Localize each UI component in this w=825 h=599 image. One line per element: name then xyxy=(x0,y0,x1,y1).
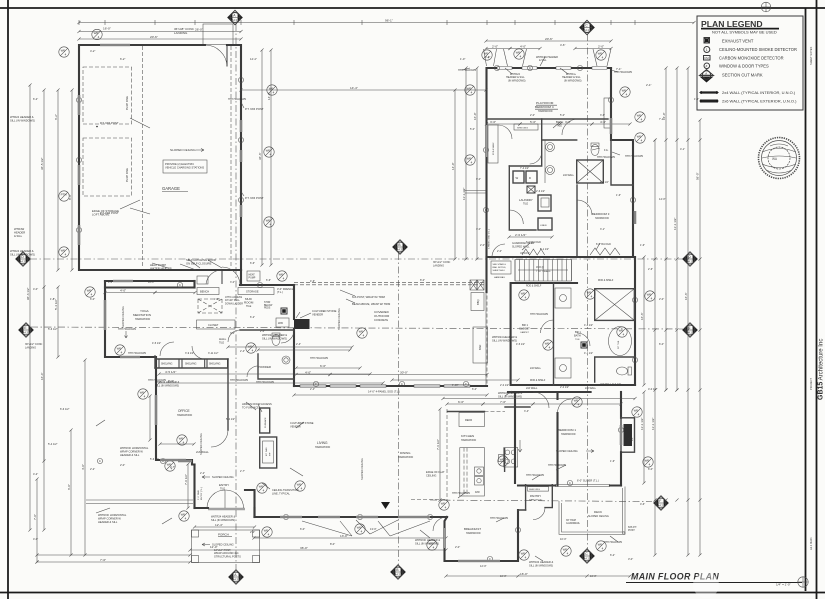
svg-text:20'-6": 20'-6" xyxy=(545,37,553,41)
legend section cut mark symbol xyxy=(700,70,714,76)
svg-text:3'-0": 3'-0" xyxy=(230,332,235,335)
svg-text:2'-0": 2'-0" xyxy=(260,330,265,333)
svg-text:SHEET A4.0: SHEET A4.0 xyxy=(493,269,506,272)
svg-text:C: C xyxy=(78,158,80,162)
svg-text:A4.2: A4.2 xyxy=(658,504,664,508)
svg-text:16'-0": 16'-0" xyxy=(520,572,528,576)
plan legend box xyxy=(697,16,803,110)
svg-text:1'-0": 1'-0" xyxy=(694,97,699,101)
porch posts xyxy=(192,556,199,563)
svg-text:6'-2": 6'-2" xyxy=(610,553,615,557)
dim line kitchen bedroom band xyxy=(443,398,635,400)
svg-text:2'-0": 2'-0" xyxy=(530,114,535,117)
svg-text:ROD & SHELF: ROD & SHELF xyxy=(526,286,542,288)
svg-text:14'-0": 14'-0" xyxy=(451,162,455,170)
svg-text:CEILING-MOUNTED SMOKE DETECTOR: CEILING-MOUNTED SMOKE DETECTOR xyxy=(719,47,797,52)
svg-text:HEADER: HEADER xyxy=(14,231,25,235)
svg-text:A4.1: A4.1 xyxy=(687,260,693,264)
svg-text:12'-4": 12'-4" xyxy=(215,523,223,527)
border frame right inner title strip xyxy=(805,8,807,591)
svg-text:BEDROOM 4: BEDROOM 4 xyxy=(535,105,554,109)
section line B vertical xyxy=(398,253,400,565)
bench box xyxy=(197,288,219,295)
svg-text:4'-0": 4'-0" xyxy=(33,537,38,541)
svg-text:ROD & SHELF: ROD & SHELF xyxy=(493,142,495,155)
svg-text:ENTRY (T.L.): ENTRY (T.L.) xyxy=(201,487,203,500)
bifold closet near stairs xyxy=(522,249,545,255)
svg-text:58'-0": 58'-0" xyxy=(696,172,700,180)
leader lines texture xyxy=(96,57,620,561)
svg-text:SELF-LATCHING DOOR: SELF-LATCHING DOOR xyxy=(186,258,216,262)
attic access hatch dashed box xyxy=(198,299,222,313)
svg-text:PROJECT: PROJECT xyxy=(809,377,813,390)
svg-text:16'-0": 16'-0" xyxy=(590,574,597,578)
watermark translucent blob xyxy=(693,572,719,598)
section marker C top xyxy=(580,20,594,34)
entry south wall xyxy=(195,507,209,509)
garage right wall windows xyxy=(240,120,242,132)
office walls xyxy=(155,359,228,430)
svg-text:PORCH: PORCH xyxy=(218,533,229,537)
svg-text:4'-5 1/2": 4'-5 1/2" xyxy=(516,343,525,346)
svg-text:UP 16 R: UP 16 R xyxy=(520,252,530,255)
svg-text:LANDING: LANDING xyxy=(25,346,36,349)
svg-text:STOR: STOR xyxy=(264,302,271,304)
svg-text:F/P: F/P xyxy=(269,452,271,456)
bedroom1 deck windows xyxy=(620,425,622,445)
door arc mud to hall xyxy=(281,330,294,343)
svg-text:HTH HOLDOWN: HTH HOLDOWN xyxy=(526,474,544,477)
svg-text:A: A xyxy=(705,71,707,75)
left dimension chain 2 xyxy=(43,90,45,530)
svg-text:LIVING: LIVING xyxy=(317,441,328,445)
svg-text:2'-0": 2'-0" xyxy=(455,545,460,549)
svg-text:6'-0": 6'-0" xyxy=(648,467,653,471)
section marker D left xyxy=(16,252,30,266)
svg-text:BR 1: BR 1 xyxy=(522,323,528,327)
door arc hall closet xyxy=(228,330,240,342)
svg-text:WRAP CORNER W: WRAP CORNER W xyxy=(120,449,143,453)
interior dim cluster2 xyxy=(296,374,330,376)
dashed line kitchen flat ceiling horizontal xyxy=(411,499,447,501)
kitchen cooktop xyxy=(504,448,518,467)
svg-text:CARBON MONOXIDE DETECTOR: CARBON MONOXIDE DETECTOR xyxy=(719,56,784,61)
section marker E right xyxy=(683,323,697,337)
bedroom3 west wall xyxy=(576,185,578,257)
svg-text:HTH HOLDOWN: HTH HOLDOWN xyxy=(530,313,548,316)
svg-text:2'-0": 2'-0" xyxy=(250,530,255,534)
svg-text:STRUCTURAL POSTS: STRUCTURAL POSTS xyxy=(214,554,241,558)
svg-text:C: C xyxy=(634,298,636,302)
svg-text:BATH: BATH xyxy=(574,334,581,338)
svg-text:96'-1": 96'-1" xyxy=(385,18,393,22)
svg-text:HALL: HALL xyxy=(219,337,227,341)
top dim segments playroom windows xyxy=(486,48,510,50)
garage bottom door arc xyxy=(206,270,222,284)
garage window symbols left wall xyxy=(59,47,69,57)
svg-text:40" GAS: 40" GAS xyxy=(265,447,268,456)
playroom side windows xyxy=(485,125,487,157)
svg-text:2'-2": 2'-2" xyxy=(200,472,205,475)
window symbols scattered left wing xyxy=(85,287,95,297)
svg-text:ROD & SHELF: ROD & SHELF xyxy=(530,380,546,382)
svg-text:D: D xyxy=(529,176,531,180)
svg-text:SHELVING: SHELVING xyxy=(209,364,221,366)
svg-text:REFR: REFR xyxy=(465,418,472,422)
svg-text:HARDWOOD: HARDWOOD xyxy=(398,456,413,459)
svg-text:2'-0 1/2": 2'-0 1/2" xyxy=(560,386,569,389)
pantry walls xyxy=(518,485,552,510)
svg-text:F.G.: F.G. xyxy=(604,149,609,152)
svg-text:2'-2": 2'-2" xyxy=(90,467,95,471)
entry sidelight xyxy=(178,460,192,462)
svg-text:PANTRY: PANTRY xyxy=(530,494,541,498)
svg-text:GUARDRAIL: GUARDRAIL xyxy=(566,522,581,525)
svg-text:1'-0": 1'-0" xyxy=(460,57,465,61)
linen closet xyxy=(538,218,552,230)
wall shelving top xyxy=(155,356,228,368)
svg-text:2'-0": 2'-0" xyxy=(659,297,664,301)
bath walls top block xyxy=(509,119,541,166)
svg-text:W6TR24 HEADER &: W6TR24 HEADER & xyxy=(211,515,235,519)
svg-text:TILE: TILE xyxy=(557,126,562,128)
door arc br1 bath xyxy=(577,333,590,346)
svg-text:16'-6": 16'-6" xyxy=(684,292,688,300)
breakfast windows xyxy=(458,560,500,562)
svg-text:10'-0": 10'-0" xyxy=(500,574,507,578)
svg-text:7'-0": 7'-0" xyxy=(100,558,106,562)
svg-text:6'-2": 6'-2" xyxy=(33,97,38,101)
left dimension chain 3 xyxy=(57,90,59,270)
svg-text:A4.1: A4.1 xyxy=(584,28,590,32)
svg-text:1'-10": 1'-10" xyxy=(452,384,458,387)
svg-text:11'-1 1/2": 11'-1 1/2" xyxy=(462,188,466,200)
svg-text:C: C xyxy=(465,382,467,386)
svg-text:W6TR24 HEADER &: W6TR24 HEADER & xyxy=(492,335,517,339)
svg-text:2x4 WALL (TYPICAL INTERIOR, U.: 2x4 WALL (TYPICAL INTERIOR, U.N.O.) xyxy=(722,90,796,95)
wall tick marks perimeter xyxy=(79,20,635,25)
svg-text:A4.1: A4.1 xyxy=(584,557,590,561)
svg-text:3'-9 1/2": 3'-9 1/2" xyxy=(185,352,194,355)
kitchen island xyxy=(460,448,485,496)
svg-text:C: C xyxy=(517,528,519,532)
bedroom1 gas fireplace xyxy=(621,418,635,452)
legend smoke detector symbol xyxy=(704,47,710,53)
svg-text:LINE, TYPICAL: LINE, TYPICAL xyxy=(272,491,291,495)
svg-text:A4.3: A4.3 xyxy=(232,18,238,22)
left dim middle section xyxy=(43,287,45,461)
svg-text:HTH HOLDOWN: HTH HOLDOWN xyxy=(625,155,643,158)
svg-text:SHEET NOTES: SHEET NOTES xyxy=(809,46,813,65)
deck rails xyxy=(559,487,625,535)
see stair notes box xyxy=(491,261,511,274)
svg-text:5'-6 1/2": 5'-6 1/2" xyxy=(48,327,58,331)
svg-text:BELOW: BELOW xyxy=(264,305,273,307)
svg-text:WA: WA xyxy=(772,157,778,161)
svg-text:P.T. 6X6 POST: P.T. 6X6 POST xyxy=(245,107,264,111)
triangle pointer dining xyxy=(381,502,390,509)
yoga meditation room walls xyxy=(105,281,195,465)
garage outline walls xyxy=(79,45,241,270)
right dimension chain 2 xyxy=(687,68,689,555)
svg-text:WTR4W: WTR4W xyxy=(14,227,25,231)
svg-text:26'-0": 26'-0" xyxy=(195,27,203,31)
closet rod shelf boxes xyxy=(555,288,571,308)
svg-text:TILE: TILE xyxy=(246,305,252,308)
living south wall with windows xyxy=(255,516,448,518)
svg-text:7'-0": 7'-0" xyxy=(500,400,506,404)
svg-text:SLOPED CEILING: SLOPED CEILING xyxy=(212,475,234,479)
svg-text:HARDWOOD: HARDWOOD xyxy=(466,532,481,535)
svg-text:2x6 WALL: 2x6 WALL xyxy=(526,387,538,390)
svg-text:P.T. 6X6 POST: P.T. 6X6 POST xyxy=(100,211,119,215)
svg-text:8'-0": 8'-0" xyxy=(330,542,335,546)
svg-text:SILL (IN WINDOWS): SILL (IN WINDOWS) xyxy=(10,253,35,257)
registration mark top right xyxy=(761,2,771,12)
shelving box laundry top xyxy=(514,124,538,130)
svg-text:WINDOW & DOOR TYPES: WINDOW & DOOR TYPES xyxy=(719,63,769,68)
svg-text:BENCH: BENCH xyxy=(200,290,209,294)
svg-text:WRAP CORNER W: WRAP CORNER W xyxy=(98,516,121,520)
svg-text:4'-5 1/2": 4'-5 1/2" xyxy=(165,370,176,374)
wd boxes laundry xyxy=(513,171,524,183)
window symbols right column xyxy=(645,291,655,301)
exhaust symbol br1 bath xyxy=(581,342,587,348)
svg-text:16 R @: 16 R @ xyxy=(536,267,544,269)
svg-text:2'-7": 2'-7" xyxy=(240,470,245,473)
bedroom1 north wall xyxy=(508,391,591,393)
svg-text:4'-2": 4'-2" xyxy=(33,472,38,476)
svg-text:C: C xyxy=(496,66,498,70)
stairs down arrow xyxy=(518,269,568,271)
bedroom1 east wall upper xyxy=(620,392,622,418)
interior dims entry xyxy=(195,526,255,528)
breakfast nook walls xyxy=(445,510,519,561)
playroom windows top wall xyxy=(497,67,512,69)
svg-text:LAUNDRY: LAUNDRY xyxy=(519,198,533,202)
garage EV charging note box xyxy=(163,160,207,173)
office door arc xyxy=(211,430,228,447)
garage dim vertical right of garage xyxy=(261,50,263,265)
furnace closet xyxy=(260,408,270,433)
svg-text:& SILL: & SILL xyxy=(14,234,23,238)
svg-text:6'-0": 6'-0" xyxy=(472,388,477,391)
garage parking stall 2 dashed xyxy=(83,138,132,196)
svg-text:2'-4": 2'-4" xyxy=(240,350,245,353)
svg-text:C: C xyxy=(259,283,261,287)
svg-text:BEAM ABOVE, WRAP W/ TRIM: BEAM ABOVE, WRAP W/ TRIM xyxy=(352,302,391,306)
svg-text:ON SELF-CLOSURE: ON SELF-CLOSURE xyxy=(186,262,212,266)
legend 2x4 wall symbol xyxy=(700,91,718,93)
svg-text:3'-0": 3'-0" xyxy=(490,120,496,124)
svg-text:3'-4": 3'-4" xyxy=(524,410,529,413)
svg-text:1'-8": 1'-8" xyxy=(50,297,55,301)
interior dims office cluster xyxy=(160,443,194,445)
svg-text:C: C xyxy=(240,198,242,202)
svg-text:OUTDOOR: OUTDOOR xyxy=(374,314,390,318)
section marker E left xyxy=(19,323,33,337)
svg-text:SLOPED CEILING: SLOPED CEILING xyxy=(170,148,196,152)
svg-text:RAIL NOTES,: RAIL NOTES, xyxy=(493,266,507,269)
svg-text:SILL (IN WINDOWS): SILL (IN WINDOWS) xyxy=(211,518,235,522)
svg-text:6'-2": 6'-2" xyxy=(54,114,58,120)
svg-text:HARDWOOD: HARDWOOD xyxy=(177,414,192,417)
svg-text:A4.1: A4.1 xyxy=(687,331,693,335)
svg-text:W6TR24 HEADER &: W6TR24 HEADER & xyxy=(498,391,522,395)
powder sink xyxy=(282,356,290,364)
living west wall xyxy=(253,508,255,517)
bath sinks xyxy=(546,143,555,152)
svg-text:(T.L.): (T.L.) xyxy=(277,290,283,294)
laundry sink xyxy=(538,195,551,211)
svg-text:HTH HOLDOWN: HTH HOLDOWN xyxy=(458,69,476,72)
interior dims playroom bottom xyxy=(487,123,521,125)
svg-text:8'-0": 8'-0" xyxy=(420,279,425,282)
svg-text:CM: CM xyxy=(704,56,709,60)
interior dims kitchen xyxy=(447,403,483,405)
stair block top wall xyxy=(487,256,636,258)
svg-text:20'-6": 20'-6" xyxy=(150,35,158,39)
svg-text:A4.3: A4.3 xyxy=(395,573,401,577)
yoga window west xyxy=(104,300,106,330)
bath shower X xyxy=(577,160,604,183)
closet rod shelf west playroom xyxy=(488,125,498,163)
svg-text:A4.3: A4.3 xyxy=(23,331,29,335)
svg-text:1'-6": 1'-6" xyxy=(214,298,219,301)
svg-text:8'x18' ONE: 8'x18' ONE xyxy=(125,96,129,110)
svg-text:TILE: TILE xyxy=(219,341,224,344)
legend exhaust vent symbol xyxy=(704,38,710,44)
svg-text:2'-6 1/2": 2'-6 1/2" xyxy=(536,190,545,193)
br1 wc room xyxy=(595,357,635,382)
svg-text:16'-0": 16'-0" xyxy=(103,27,111,31)
door arc bedroom3 xyxy=(577,200,592,215)
playroom corner window syms xyxy=(482,50,492,60)
svg-text:6'-0" SLIDER (T.L.): 6'-0" SLIDER (T.L.) xyxy=(577,479,599,483)
extra bottom-left dim line xyxy=(37,554,190,556)
svg-text:2'-4": 2'-4" xyxy=(646,83,651,87)
svg-text:A4.3: A4.3 xyxy=(20,260,26,264)
door arc bath xyxy=(530,152,542,164)
svg-text:8'-0": 8'-0" xyxy=(168,379,174,383)
left wing windows xyxy=(120,356,140,358)
section line C vertical xyxy=(587,34,589,549)
svg-text:4'-3 1/2": 4'-3 1/2" xyxy=(584,324,593,327)
svg-text:3'-0": 3'-0" xyxy=(565,120,571,124)
svg-text:6'-0": 6'-0" xyxy=(67,484,71,490)
svg-text:POWDER: POWDER xyxy=(258,365,271,369)
powder window sym xyxy=(246,343,256,353)
svg-text:6'-0": 6'-0" xyxy=(90,297,95,301)
svg-text:HANDRAIL: HANDRAIL xyxy=(494,276,506,279)
door arc laundry xyxy=(509,210,523,224)
kitchen counter top wall xyxy=(448,411,485,413)
bottom dimension line 2 xyxy=(190,549,446,551)
attic access symbol xyxy=(527,186,535,193)
svg-text:CEILING TRANSITION: CEILING TRANSITION xyxy=(272,488,299,492)
svg-text:3'-11 1/2": 3'-11 1/2" xyxy=(208,352,218,355)
svg-text:C: C xyxy=(632,198,634,202)
flat ceiling dashed v line xyxy=(446,409,448,500)
bedroom1 south wall with slider xyxy=(518,484,621,486)
svg-text:SILL (IN WINDOWS): SILL (IN WINDOWS) xyxy=(262,336,287,340)
border frame top xyxy=(0,7,825,9)
svg-text:2x6 WALL (TYPICAL EXTERIOR, U.: 2x6 WALL (TYPICAL EXTERIOR, U.N.O.) xyxy=(722,99,797,104)
svg-text:16'-4": 16'-4" xyxy=(40,372,44,380)
svg-text:4'-0": 4'-0" xyxy=(108,281,113,284)
svg-text:SILL (IN WINDOWS): SILL (IN WINDOWS) xyxy=(10,119,35,123)
svg-text:C: C xyxy=(529,66,531,70)
svg-text:3'-1": 3'-1" xyxy=(600,228,605,231)
svg-text:6'-6 1/2": 6'-6 1/2" xyxy=(60,407,70,411)
svg-text:W6TROK HORIZONTAL: W6TROK HORIZONTAL xyxy=(98,513,127,517)
svg-text:MEDITATION: MEDITATION xyxy=(133,313,151,317)
border frame bottom xyxy=(0,592,825,594)
svg-text:2'-0": 2'-0" xyxy=(120,463,125,467)
svg-text:CULTURED STONE: CULTURED STONE xyxy=(312,309,337,313)
svg-text:F/P: F/P xyxy=(632,437,634,441)
svg-text:11'-1 1/2": 11'-1 1/2" xyxy=(640,418,644,430)
door arc yoga xyxy=(160,342,174,356)
svg-text:4'-0": 4'-0" xyxy=(120,288,126,292)
door arc powder xyxy=(247,366,258,377)
svg-text:(IN WINDOWS): (IN WINDOWS) xyxy=(508,79,526,82)
right dimension chain 3 xyxy=(676,68,678,390)
svg-text:LANDING: LANDING xyxy=(174,31,188,35)
svg-text:SLOPED WALL: SLOPED WALL xyxy=(512,245,530,248)
svg-text:2'-0 1/2": 2'-0 1/2" xyxy=(500,384,509,387)
svg-text:5'-4 1/2": 5'-4 1/2" xyxy=(226,418,235,421)
svg-text:7'-4 1/2": 7'-4 1/2" xyxy=(520,167,529,170)
svg-text:2x6 WALL: 2x6 WALL xyxy=(530,367,542,370)
main wall south of garage xyxy=(105,280,195,282)
exhaust fan symbol mud xyxy=(281,308,287,314)
svg-text:DECK: DECK xyxy=(594,510,602,514)
svg-text:WATER HEATER: WATER HEATER xyxy=(150,267,172,271)
svg-text:7'-0": 7'-0" xyxy=(33,514,37,520)
svg-text:W/D: W/D xyxy=(278,321,283,325)
svg-text:SILL (IN WINDOWS): SILL (IN WINDOWS) xyxy=(155,383,179,387)
svg-text:C: C xyxy=(240,78,242,82)
svg-text:5'-6 1/2": 5'-6 1/2" xyxy=(150,458,159,461)
svg-text:SLOPED CEILING: SLOPED CEILING xyxy=(588,515,609,518)
garage parking stall 1 dashed xyxy=(83,67,132,124)
svg-text:LANDING: LANDING xyxy=(433,264,444,267)
svg-text:PUMP: PUMP xyxy=(249,277,256,280)
wall mud east xyxy=(293,285,295,319)
svg-text:SILL (IN WINDOWS): SILL (IN WINDOWS) xyxy=(529,563,553,567)
svg-text:3'-6": 3'-6" xyxy=(600,114,605,117)
garage right inner dashed line xyxy=(230,46,232,268)
stairs outline xyxy=(515,260,571,282)
svg-text:11'-1 1/2": 11'-1 1/2" xyxy=(651,418,655,430)
window sill lines laundry west xyxy=(465,190,487,192)
porch outline xyxy=(192,530,260,563)
br1 bath tub xyxy=(609,327,632,356)
svg-text:2'-4": 2'-4" xyxy=(310,388,315,391)
svg-text:D/W: D/W xyxy=(475,491,480,494)
svg-text:6'-0": 6'-0" xyxy=(659,342,664,346)
svg-text:F: F xyxy=(659,499,661,503)
svg-text:SLOPED CEILING: SLOPED CEILING xyxy=(121,306,125,328)
dim chain between garage and playroom 2 xyxy=(465,68,467,259)
legend CO detector symbol xyxy=(704,56,711,61)
svg-text:BEDROOM 1: BEDROOM 1 xyxy=(558,428,576,432)
svg-text:36" TUB: 36" TUB xyxy=(618,340,620,349)
door arc br1 closet xyxy=(541,320,554,333)
section marker F right xyxy=(654,496,668,510)
svg-text:LINEN: LINEN xyxy=(540,225,547,227)
